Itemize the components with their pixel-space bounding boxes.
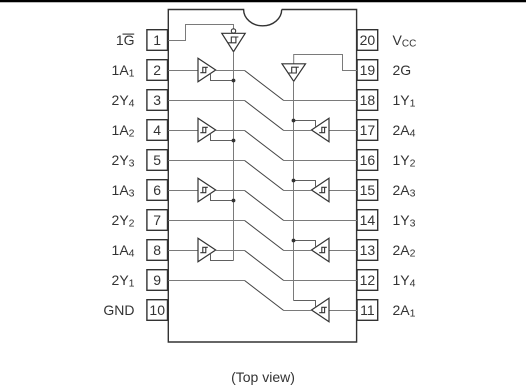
junction dot on 2G rail (292, 119, 296, 123)
wire 2A1 input, pin 11 to buffer (329, 310, 357, 312)
wire 2A3 input, pin 15 to buffer (329, 190, 357, 192)
pin 20 box (357, 30, 378, 51)
svg-text:5: 5 (153, 152, 161, 168)
pin 20 label VCC (393, 32, 417, 50)
wire 2Y3 output, buffer to pin 5 (168, 160, 244, 162)
svg-text:7: 7 (153, 212, 161, 228)
pin 7 label 2Y2 (112, 212, 135, 230)
pin 9 label 2Y1 (112, 272, 135, 290)
svg-text:1Y4: 1Y4 (393, 272, 416, 290)
svg-text:2A4: 2A4 (393, 122, 416, 140)
wire 2Y4 output, buffer to pin 3 (168, 100, 244, 102)
pin 17 box (357, 120, 378, 141)
pin 1 box (147, 30, 168, 51)
pin 16 box (357, 150, 378, 171)
pin 4 label 1A2 (112, 122, 135, 140)
pin 11 box (357, 300, 378, 321)
svg-text:2A1: 2A1 (393, 302, 416, 320)
wire 2Y1 output, buffer to pin 9 (168, 280, 244, 282)
pin 6 label 1A3 (112, 182, 135, 200)
svg-text:4: 4 (153, 122, 161, 138)
svg-text:14: 14 (360, 212, 376, 228)
wire pin 1 to enable inverter G1 (168, 25, 233, 41)
pin 16 label 1Y2 (393, 152, 416, 170)
svg-text:1Y2: 1Y2 (393, 152, 416, 170)
enable buffer G2 (2G, active high) (282, 64, 306, 82)
svg-text:15: 15 (360, 182, 376, 198)
pin 19 label 2G (393, 62, 412, 78)
pin 6 box (147, 180, 168, 201)
junction dot on 2G rail (292, 239, 296, 243)
junction dot on 1G rail (232, 199, 236, 203)
enable inverter G1 (1G, active low) (222, 29, 245, 52)
svg-text:6: 6 (153, 182, 161, 198)
buffer U2A (2A4 to 2Y4) (312, 118, 330, 142)
top border bar (0, 0, 526, 2)
pin 8 box (147, 240, 168, 261)
pin 7 box (147, 210, 168, 231)
buffer U2C (2A2 to 2Y2) (312, 238, 330, 262)
wire 2A2 input, pin 13 to buffer (329, 250, 357, 252)
2G enable rail (293, 81, 295, 300)
wire 1G enable stub to buffer U1A (211, 74, 234, 81)
wire 2G enable stub to buffer U2C (294, 241, 316, 248)
buffer U1B (1A2 to 1Y2) (198, 118, 216, 141)
wire 1G enable stub to buffer U1C (211, 194, 234, 201)
wire 1Y3 output, buffer to pin 14 (216, 190, 245, 192)
wire 1G enable stub to buffer U1B (211, 134, 234, 141)
wire 1Y1 output, buffer to pin 18 (216, 70, 245, 72)
svg-text:13: 13 (360, 242, 376, 258)
svg-text:1A3: 1A3 (112, 182, 135, 200)
svg-text:8: 8 (153, 242, 161, 258)
wire 1A4 input, pin 8 to buffer (168, 250, 198, 252)
svg-text:2G: 2G (393, 62, 412, 78)
buffer U2D (2A1 to 2Y1) (312, 298, 330, 322)
svg-text:16: 16 (360, 152, 376, 168)
svg-text:2: 2 (153, 62, 161, 78)
buffer U2B (2A3 to 2Y3) (312, 178, 330, 202)
junction dot on 1G rail (232, 139, 236, 143)
pin 12 label 1Y4 (393, 272, 416, 290)
pin 14 label 1Y3 (393, 212, 416, 230)
svg-text:2Y4: 2Y4 (112, 92, 135, 110)
pin 14 box (357, 210, 378, 231)
wire 2Y2 output, buffer to pin 7 (168, 220, 244, 222)
svg-text:1Y1: 1Y1 (393, 92, 416, 110)
wire 1A2 input, pin 4 to buffer (168, 130, 198, 132)
svg-text:1Y3: 1Y3 (393, 212, 416, 230)
svg-text:18: 18 (360, 92, 376, 108)
svg-text:1: 1 (153, 32, 161, 48)
1G enable rail (233, 52, 235, 261)
wire 2A4 input, pin 17 to buffer (329, 130, 357, 132)
svg-text:3: 3 (153, 92, 161, 108)
wire 1A1 input, pin 2 to buffer (168, 70, 198, 72)
IC package outline with index notch (168, 10, 356, 343)
wire 1G enable stub to buffer U1D (211, 254, 234, 261)
wire 1Y4 output, buffer to pin 12 (216, 250, 245, 252)
pin 15 label 2A3 (393, 182, 416, 200)
svg-text:12: 12 (360, 272, 376, 288)
pin 5 box (147, 150, 168, 171)
svg-text:17: 17 (360, 122, 376, 138)
svg-text:9: 9 (153, 272, 161, 288)
pin 18 box (357, 90, 378, 111)
buffer U1D (1A4 to 1Y4) (198, 238, 216, 261)
svg-text:1A4: 1A4 (112, 242, 135, 260)
svg-text:10: 10 (149, 302, 165, 318)
buffer U1A (1A1 to 1Y1) (198, 58, 216, 81)
svg-text:2Y2: 2Y2 (112, 212, 135, 230)
svg-text:VCC: VCC (393, 32, 417, 50)
pin 10 label GND (103, 302, 134, 318)
wire enable buffer G2 to pin 19 (294, 55, 357, 71)
svg-text:2Y3: 2Y3 (112, 152, 135, 170)
pin 1 label 1G (116, 32, 135, 48)
svg-text:1A1: 1A1 (112, 62, 135, 80)
svg-text:2A2: 2A2 (393, 242, 416, 260)
pin 5 label 2Y3 (112, 152, 135, 170)
junction dot on 1G rail (232, 79, 236, 83)
pin 19 box (357, 60, 378, 81)
pin 4 box (147, 120, 168, 141)
buffer U1C (1A3 to 1Y3) (198, 178, 216, 201)
wire 2G enable stub to buffer U2B (294, 181, 316, 188)
pin 13 box (357, 240, 378, 261)
pin 18 label 1Y1 (393, 92, 416, 110)
pin 17 label 2A4 (393, 122, 416, 140)
pin 11 label 2A1 (393, 302, 416, 320)
svg-text:20: 20 (360, 32, 376, 48)
pin 2 label 1A1 (112, 62, 135, 80)
svg-text:(Top view): (Top view) (231, 369, 295, 385)
pin 10 box (147, 300, 168, 321)
pin 8 label 1A4 (112, 242, 135, 260)
wire 2G enable stub to buffer U2A (294, 121, 316, 128)
pin 12 box (357, 270, 378, 291)
svg-text:1A2: 1A2 (112, 122, 135, 140)
pin 3 label 2Y4 (112, 92, 135, 110)
svg-text:2Y1: 2Y1 (112, 272, 135, 290)
svg-text:19: 19 (360, 62, 376, 78)
pin 2 box (147, 60, 168, 81)
pin 9 box (147, 270, 168, 291)
junction dot on 2G rail (292, 179, 296, 183)
pin 15 box (357, 180, 378, 201)
pin 3 box (147, 90, 168, 111)
pin 13 label 2A2 (393, 242, 416, 260)
svg-text:2A3: 2A3 (393, 182, 416, 200)
svg-text:GND: GND (103, 302, 134, 318)
wire 1A3 input, pin 6 to buffer (168, 190, 198, 192)
svg-text:11: 11 (360, 302, 375, 318)
wire 2G enable stub to buffer U2D (294, 301, 316, 308)
wire 1Y2 output, buffer to pin 16 (216, 130, 245, 132)
